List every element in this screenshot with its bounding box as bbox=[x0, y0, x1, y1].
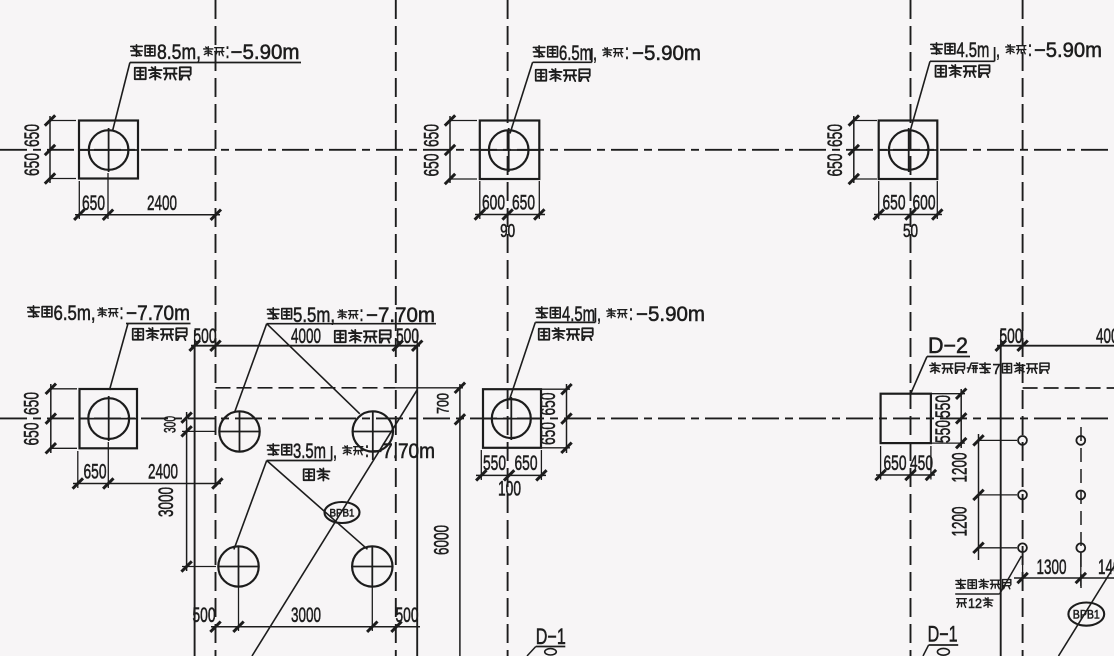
right dim line 700 6000 bbox=[459, 384, 461, 656]
short dashed line small-pile column x=1081 bbox=[1080, 427, 1082, 588]
P2 left dim extension top bbox=[450, 120, 477, 122]
svg-text:8.5m,: 8.5m, bbox=[157, 41, 201, 64]
svg-text:12: 12 bbox=[968, 595, 982, 611]
svg-text:−7.70m: −7.70m bbox=[371, 440, 435, 463]
svg-text::: : bbox=[1028, 38, 1032, 61]
svg-text:550: 550 bbox=[483, 451, 506, 475]
P3 bottom dimension line 650 600 bbox=[874, 214, 942, 216]
vertical grid axis line x=507.6 bbox=[507, 0, 509, 656]
dashed rect top edge inside cap bbox=[216, 387, 396, 389]
P2 left dimension line 650/650 bbox=[449, 116, 451, 183]
svg-text:650: 650 bbox=[823, 153, 847, 176]
svg-text:650: 650 bbox=[884, 451, 907, 475]
svg-text:−5.90m: −5.90m bbox=[231, 41, 300, 64]
D-1 left ellipse bbox=[545, 649, 557, 655]
P1 bottom dim extension left bbox=[78, 181, 80, 219]
A5 second line kang ya bbox=[304, 469, 315, 480]
P4 left dim extension bottom bbox=[51, 447, 77, 449]
A6 second line kang ya kang ba bbox=[539, 329, 550, 340]
svg-text:−5.90m: −5.90m bbox=[636, 303, 705, 326]
P3 bottom dim extension left bbox=[878, 181, 880, 219]
cap pile circle top-right bbox=[353, 411, 393, 451]
1200 ext lines bbox=[979, 439, 1018, 441]
P5 bottom dim extension right bbox=[540, 450, 542, 480]
svg-text:650: 650 bbox=[420, 124, 444, 147]
svg-text:90: 90 bbox=[500, 221, 515, 241]
A2 leader line bbox=[510, 62, 533, 133]
right cap top edge / dim line 500 4000 bbox=[997, 345, 1114, 347]
svg-text:1300: 1300 bbox=[1037, 555, 1067, 579]
P3 left dim extension top bbox=[854, 120, 877, 122]
A7 underline (under -7.70m) bbox=[126, 323, 191, 325]
svg-text:6000: 6000 bbox=[430, 525, 454, 555]
A4 leader to top-left pile bbox=[235, 324, 267, 413]
P3 left dimension line 650/650 bbox=[853, 116, 855, 183]
annotation A7 row2-left: zhuang chang 6.5m, zhuang ding: -7.70m bbox=[28, 306, 39, 317]
pile cap square P5 bbox=[483, 389, 541, 448]
P5 bottom dim extension left bbox=[480, 450, 482, 480]
pile cap square P1 bbox=[79, 121, 138, 179]
ext from BR pile to bottom dim bbox=[371, 587, 373, 631]
svg-text::: : bbox=[120, 301, 124, 324]
svg-text:550: 550 bbox=[931, 420, 955, 443]
A1 underline bbox=[130, 62, 301, 64]
pile circle P5 bbox=[492, 399, 531, 438]
svg-text:D−1: D−1 bbox=[536, 624, 566, 649]
A1 leader line bbox=[113, 63, 130, 132]
A5 leader to bottom-left pile bbox=[234, 461, 267, 550]
P4 cross horizontal bbox=[80, 418, 138, 420]
P2 left dim extension bottom bbox=[450, 178, 477, 180]
kang ya kang ba in dim row bbox=[335, 331, 346, 342]
A6 leader line bbox=[510, 322, 536, 399]
P1 left dim extension top bbox=[50, 120, 76, 122]
right cap dashed top edge bbox=[1023, 387, 1114, 389]
big cap left edge bbox=[194, 346, 196, 656]
pile cap square P4 bbox=[80, 389, 138, 448]
ext line at top pile row bbox=[182, 430, 216, 432]
svg-text::: : bbox=[625, 41, 629, 64]
annotation A2 text: zhuang chang 6.5m, zhuang ding: -5.90m bbox=[533, 46, 544, 57]
svg-text:650: 650 bbox=[883, 191, 906, 215]
annotation A6: zhuang chang 4.5m, zhuang ding: -5.90m bbox=[536, 307, 547, 318]
svg-text::: : bbox=[365, 439, 369, 462]
vertical grid axis line x=215.5 bbox=[215, 0, 217, 656]
svg-text:500: 500 bbox=[193, 603, 216, 627]
svg-text:1200: 1200 bbox=[948, 452, 972, 482]
P5 right dim extension bottom bbox=[541, 447, 570, 449]
pile cap square P2 bbox=[480, 121, 540, 180]
P3 cross vertical bbox=[908, 128, 910, 172]
svg-text:550: 550 bbox=[931, 395, 955, 418]
svg-text:,: , bbox=[597, 303, 601, 326]
note: cheng tai xia mao zhuang bbox=[956, 579, 966, 589]
extension of dashed top to right dim line bbox=[396, 387, 463, 389]
horizontal axis line row2 y=418.4 bbox=[0, 417, 1114, 419]
P3 left dim extension bottom bbox=[854, 178, 877, 180]
svg-text:500: 500 bbox=[1000, 324, 1023, 348]
top dim extension stubs bbox=[194, 330, 196, 346]
svg-text:300: 300 bbox=[161, 416, 180, 433]
horizontal axis line row1 y=149.8 bbox=[0, 149, 1114, 151]
svg-text:D−1: D−1 bbox=[928, 622, 958, 647]
svg-text:−5.90m: −5.90m bbox=[1034, 39, 1102, 62]
annotation A3 text: zhuang chang 4.5m, zhuang ding: -5.90m bbox=[931, 43, 942, 54]
svg-text:650: 650 bbox=[420, 153, 444, 176]
ext line at bottom pile row bbox=[182, 566, 216, 568]
A4 leader to top-right pile bbox=[267, 324, 360, 414]
pile circle P1 bbox=[89, 130, 129, 170]
pile circle P3 bbox=[889, 130, 929, 170]
small pile circles grid bbox=[1018, 436, 1027, 445]
svg-text:3000: 3000 bbox=[154, 487, 178, 517]
svg-text:650: 650 bbox=[20, 153, 44, 176]
P2 bottom dimension line 600 650 bbox=[475, 214, 545, 216]
svg-text:650: 650 bbox=[20, 422, 44, 445]
D-2 underline bbox=[927, 356, 970, 358]
vertical grid axis line x=910.5 bbox=[910, 0, 912, 656]
BPB1 right ellipse bbox=[1068, 603, 1104, 626]
P1 cross horizontal bbox=[79, 149, 138, 151]
P4 left dimension line 650/650 bbox=[50, 384, 52, 453]
note line2: gong 12 gen bbox=[957, 599, 967, 608]
A2 underline with hook bbox=[533, 61, 592, 63]
P1 left dim extension bottom bbox=[50, 178, 76, 180]
svg-text::: : bbox=[360, 303, 364, 326]
A7 second line kang ya kang ba bbox=[133, 329, 144, 340]
A7 leader line bbox=[110, 324, 129, 391]
D-2 cap square bbox=[881, 394, 931, 443]
P5 bottom dimension line 550 650 bbox=[476, 474, 546, 476]
1300 ext lines bbox=[1022, 553, 1024, 591]
P3 bottom dim extension right bbox=[936, 181, 938, 219]
svg-text:650: 650 bbox=[536, 422, 560, 445]
svg-text:3000: 3000 bbox=[291, 603, 321, 627]
svg-text:500: 500 bbox=[194, 324, 217, 348]
svg-text:650: 650 bbox=[536, 392, 560, 415]
P2 bottom dim extension left bbox=[479, 181, 481, 219]
svg-text:4.5m: 4.5m bbox=[956, 39, 989, 62]
note leader to small pile bbox=[1000, 556, 1022, 594]
note underline bbox=[955, 593, 999, 595]
svg-text:D−2: D−2 bbox=[928, 333, 968, 358]
svg-text:1400: 1400 bbox=[1098, 555, 1114, 579]
BPB1 right diagonal through bbox=[1059, 567, 1114, 656]
A4 underline bbox=[267, 323, 436, 325]
P2 cross vertical bbox=[508, 128, 510, 172]
svg-text:BPB1: BPB1 bbox=[1073, 608, 1100, 622]
A2 second line kang ya kang ba bbox=[536, 70, 547, 81]
A3 leader line bbox=[910, 61, 930, 131]
svg-text:1200: 1200 bbox=[948, 506, 972, 536]
D-2 note: cheng tai jia hou zhi 7 ceng ding ban ding bbox=[930, 363, 941, 374]
A3 second line kang ya kang ba bbox=[936, 66, 947, 77]
svg-text:,: , bbox=[996, 39, 1000, 62]
cap pile circle bottom-right bbox=[352, 546, 392, 586]
P5 cross horizontal bbox=[483, 418, 541, 420]
svg-text:−5.90m: −5.90m bbox=[632, 42, 701, 65]
svg-text:650: 650 bbox=[512, 191, 535, 215]
P1 bottom dimension line 650 2400 bbox=[75, 214, 220, 216]
long leader through BPB1 diagonal bbox=[252, 390, 417, 656]
D-1 left leader bbox=[527, 647, 536, 656]
svg-text:3.5m: 3.5m bbox=[293, 440, 326, 463]
cap pile circle bottom-left bbox=[218, 546, 258, 586]
P4 bottom dim extension left bbox=[77, 451, 79, 488]
pile circle P4 bbox=[88, 398, 129, 439]
svg-text:,: , bbox=[593, 42, 597, 65]
left dim line 300 3000 bbox=[186, 412, 188, 571]
P1 cross vertical bbox=[108, 128, 110, 172]
vertical grid axis line x=1022.6 bbox=[1022, 0, 1024, 656]
P5 right dim extension top bbox=[541, 388, 570, 390]
ext from BL pile to bottom dim bbox=[238, 587, 240, 631]
big cap top edge / top dimension line 500 4000 500 bbox=[191, 345, 420, 347]
svg-text:2400: 2400 bbox=[148, 460, 178, 484]
svg-text:6.5m,: 6.5m, bbox=[54, 302, 96, 325]
svg-text::: : bbox=[226, 40, 230, 63]
P4 left dim extension top bbox=[51, 388, 77, 390]
svg-text:650: 650 bbox=[823, 124, 847, 147]
D-2 leader bbox=[911, 357, 927, 394]
big cap right edge bbox=[416, 346, 418, 656]
BPB1 ellipse label bbox=[325, 502, 360, 523]
svg-text:650: 650 bbox=[82, 191, 105, 215]
pile cap square P3 bbox=[879, 121, 938, 180]
annotation A4: zhuang chang 5.5m, zhuang ding: -7.70m bbox=[268, 308, 279, 319]
svg-text::: : bbox=[629, 302, 633, 325]
svg-text:600: 600 bbox=[482, 191, 505, 215]
annotation A5: zhuang chang 3.5m, zhuang ding: -7.70m bbox=[268, 444, 279, 455]
1300 dim line bbox=[1014, 577, 1114, 579]
svg-text:100: 100 bbox=[498, 477, 521, 501]
svg-text:−7.70m: −7.70m bbox=[126, 302, 190, 325]
P4 bottom dimension line 650 2400 bbox=[73, 483, 221, 485]
P2 bottom dim extension right bbox=[538, 181, 540, 219]
cap bottom dimension line 500 3000 500 bbox=[211, 626, 420, 628]
cap pile circle top-left bbox=[219, 411, 259, 451]
P4 bottom dim extension center bbox=[107, 442, 109, 488]
D-1 right ellipse bbox=[937, 648, 949, 655]
P5 right dimension line 650/650 bbox=[566, 384, 568, 453]
svg-text:50: 50 bbox=[903, 221, 918, 241]
annotation A1 pile length text: zhang chang 8.5m, zhuang ding: -5.90m bbox=[131, 45, 142, 56]
svg-text:650: 650 bbox=[515, 451, 538, 475]
svg-text:500: 500 bbox=[396, 324, 419, 348]
P2 cross horizontal bbox=[480, 149, 540, 151]
svg-text:650: 650 bbox=[20, 124, 44, 147]
A5 underline with hook bbox=[267, 460, 332, 462]
D-1 right leader bbox=[923, 645, 929, 656]
svg-text:650: 650 bbox=[84, 460, 107, 484]
svg-text:2400: 2400 bbox=[147, 191, 177, 215]
P5 cross vertical bbox=[510, 397, 512, 440]
1200 dim line vertical bbox=[978, 434, 980, 560]
right cap left edge bbox=[1000, 346, 1002, 656]
P4 cross vertical bbox=[108, 396, 110, 441]
D-2 bottom dimension 650 450 bbox=[876, 474, 935, 476]
svg-text:450: 450 bbox=[910, 451, 933, 475]
P1 left dimension line 650/650 bbox=[49, 116, 51, 183]
svg-text:600: 600 bbox=[913, 191, 936, 215]
D-2 right dimension 550/550 bbox=[960, 389, 962, 448]
svg-text:BPB1: BPB1 bbox=[330, 508, 355, 520]
A1 second line kang ya kang ba bbox=[135, 68, 146, 79]
A3 underline with hook bbox=[930, 60, 995, 62]
svg-text:,: , bbox=[333, 440, 337, 463]
pile circle P2 bbox=[489, 130, 529, 170]
A5 leader through BPB1 to bottom-right pile bbox=[267, 461, 368, 550]
svg-text:700: 700 bbox=[434, 393, 453, 414]
P3 cross horizontal bbox=[879, 149, 938, 151]
svg-text:500: 500 bbox=[396, 603, 419, 627]
P1 bottom dim extension center bbox=[107, 173, 109, 219]
vertical grid axis line x=395.8 bbox=[395, 0, 397, 656]
A6 underline with hook bbox=[535, 321, 595, 323]
svg-text:4000: 4000 bbox=[291, 324, 321, 348]
svg-text:7: 7 bbox=[993, 361, 1001, 378]
svg-text:650: 650 bbox=[20, 392, 44, 415]
svg-text:4000: 4000 bbox=[1096, 324, 1114, 348]
